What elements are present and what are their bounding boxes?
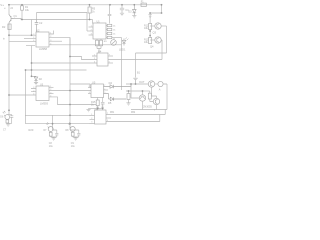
svg-text:10u: 10u [71,146,76,148]
wire bus y63 [32,62,98,64]
resistor R5 from rail [88,7,91,13]
svg-text:D3: D3 [128,10,132,13]
ground under D3 [132,16,136,18]
svg-text:2: 2 [50,36,51,38]
pin number specks [33,26,110,124]
wire U5 left stub1 [88,87,91,89]
svg-text:10k: 10k [144,41,149,44]
svg-text:5: 5 [107,120,108,122]
capacitor C2 above U2 [35,20,39,33]
junction dots [8,4,162,125]
svg-text:4: 4 [33,40,34,42]
wire bottom loop outer [26,114,95,116]
svg-text:D7: D7 [44,130,48,132]
svg-text:3: 3 [50,92,51,94]
resistor R8 right of U1 [106,33,107,35]
svg-text:D4: D4 [109,81,113,85]
wire U2 pin4 left [9,41,36,43]
wire Q3 base [150,25,155,27]
svg-text:3: 3 [33,87,34,89]
svg-text:4: 4 [33,94,34,96]
wire U4 right pin1 stub [108,55,113,57]
diode D2 under bus [32,76,39,84]
capacitor C4 top right rail [120,5,124,13]
crystal Y1 above U6 [96,106,104,110]
wire U5 left stub3 [88,93,91,95]
svg-text:D6: D6 [0,117,4,119]
svg-text:1k: 1k [91,104,94,107]
diode D5 right of U5 [104,94,127,101]
resistor R19 [6,118,8,120]
resistor R15 below U5 [97,98,99,101]
wire Q3 right [161,25,166,27]
wire U4 right out long [108,59,162,61]
ground cluster bottom-left [6,124,10,126]
svg-text:A: A [159,88,161,92]
svg-text:OUT: OUT [139,80,145,84]
resistor R21 [50,131,52,134]
junction dot [26,46,35,77]
svg-text:1k: 1k [92,10,95,13]
diode D4 right of U5 [104,84,132,88]
svg-text:U4: U4 [98,49,102,53]
svg-text:1: 1 [50,86,51,88]
resistor R22 [72,131,74,134]
svg-text:R20: R20 [29,128,34,132]
ground under R16 [126,103,130,105]
svg-text:5: 5 [104,92,105,94]
wire U2 pin2 left [9,34,36,36]
wire return bottom [131,109,167,111]
svg-text:6: 6 [104,89,105,91]
wire ground bus below U5 [89,108,104,110]
wire led cluster bottom [7,122,11,125]
svg-text:3: 3 [91,34,92,36]
transistor Q6 circle [139,95,145,101]
wire mid feedback [37,13,88,32]
IC U3 box [36,86,49,101]
wire y91 ext [143,90,150,92]
fuse F1 on rail [141,3,146,6]
capacitor C6 below U5 [101,98,105,109]
wire U1 pin3 stub [89,34,94,36]
wire base net [14,19,93,36]
svg-text:e: e [4,8,6,10]
svg-text:Q3: Q3 [153,30,157,34]
wire Q4 right [160,40,163,60]
capacitor C7 [10,116,13,124]
wire U2 pin5 right hook [49,31,54,35]
wire bus y70 [26,69,87,71]
svg-text:1k: 1k [113,30,116,32]
svg-text:C7: C7 [3,130,7,132]
wire base row y98 [131,84,139,98]
wire cluster1 bottom [51,136,57,138]
transistor Q3 circle [155,23,161,29]
svg-text:3: 3 [33,34,34,36]
IC U5 box [91,84,104,98]
IC U1 box [93,23,106,39]
wire right bus down [166,26,168,53]
transistor Q5 circle [148,81,154,87]
svg-text:3: 3 [91,121,92,123]
svg-text:U2: U2 [36,28,40,32]
wire drop to cluster2 [70,130,79,134]
wire x70 to U5 pin1 [70,84,91,88]
wire U4 pin left stubs [92,56,97,60]
ground cluster2 [74,138,78,140]
wire y91 row [126,90,143,92]
wire U3 pin left long [9,94,36,96]
wire feedback y53 [136,53,167,78]
resistor R11 below U1 [100,39,102,40]
wire left bus vertical [8,5,10,111]
svg-text:D5: D5 [108,101,112,105]
wire U4 right pin3 stub [108,62,113,64]
wire under R10 R11 [97,49,101,54]
svg-text:Q4: Q4 [150,45,154,49]
svg-text:2: 2 [89,86,90,88]
wire left col down [128,91,130,94]
IC U4 box [97,53,108,66]
svg-text:2: 2 [91,118,92,120]
svg-text:2: 2 [91,30,92,32]
wire Q6 top bottom [142,91,144,110]
transistor Q1 [9,15,14,23]
LED D7 [48,127,53,132]
wire U5 right stub2 [104,89,109,91]
wire U1 pin1 stub [89,26,94,28]
wire bottom loop inner [26,115,95,123]
zener D3 from rail [133,5,137,16]
wire U3 pin3 stub [49,93,54,95]
wire U2 pin7 stub [49,40,62,42]
wire U6 right out1 [106,110,165,115]
svg-text:LM358: LM358 [39,47,47,51]
wire bias tap [150,13,161,24]
resistor R6 right of U1 [106,25,107,27]
svg-text:10u: 10u [49,146,54,148]
capacitor C9 [77,133,80,137]
wire Q7 connections [150,87,157,109]
wire cluster2 bottom [73,136,79,138]
battery B1 [133,78,137,84]
resistor R17 [149,91,151,93]
svg-text:7: 7 [104,85,105,87]
resistor R2 on left bus [8,24,11,30]
svg-text:1: 1 [94,55,95,57]
svg-text:D8: D8 [66,130,70,132]
svg-text:2: 2 [33,37,34,39]
resistor R13 [149,38,152,44]
svg-text:1k: 1k [113,34,116,36]
op-amp U2 box [36,32,49,47]
transistor Q7 circle [153,98,159,104]
svg-text:C9: C9 [71,143,75,145]
svg-text:FB2: FB2 [131,112,136,114]
resistor R1 from rail [21,6,24,10]
wire U6 right stub [106,117,111,119]
wire U3 right pin1 stub [49,86,54,88]
svg-text:1: 1 [91,114,92,116]
svg-text:3: 3 [50,40,51,42]
wire Q4 base [150,39,155,41]
wire U2 pin3 stub [24,37,36,39]
wire U1 pin2 left [87,30,93,32]
svg-text:Q1: Q1 [14,15,18,18]
wire top supply rail [8,4,162,6]
svg-text:e: e [154,110,156,112]
svg-text:1: 1 [91,26,92,28]
wire output row y84 [126,83,148,85]
resistor R7 right of U1 [106,29,107,31]
wire drop to cluster1 [53,115,57,133]
wire Q5 to M2 [155,83,158,85]
svg-text:R9: R9 [104,41,108,43]
wire led cluster top [7,110,11,116]
LED D6 bottom-left [5,115,10,120]
wire center bus x70 [69,38,71,130]
svg-text:D2: D2 [39,78,43,81]
svg-text:4: 4 [50,96,51,98]
svg-text:in: in [3,39,6,41]
svg-text:2: 2 [50,89,51,91]
resistor R10 below U1 [96,39,98,40]
wire U2 pin6 right route to U4 [49,38,92,60]
wire U6 left pin3 [90,123,95,125]
wire U6 left pin1 [90,114,95,116]
svg-text:24: 24 [10,8,13,10]
LED D1 [122,39,125,46]
svg-text:V+: V+ [0,3,4,7]
wire U3 pin4 route [49,97,96,105]
wire U6 left pin2 [90,119,95,121]
svg-text:2N3055: 2N3055 [143,105,152,108]
ground cluster1 [52,138,56,140]
wire R9 to right bus [112,37,122,39]
LED D8 [70,127,75,132]
meter M1 circle [111,40,117,46]
wire U6 right out2 [106,115,160,122]
svg-text:C8: C8 [49,143,53,145]
wire U3 pin stubs left [31,89,36,92]
capacitor C8 [55,133,58,137]
svg-text:LM393: LM393 [40,101,48,105]
svg-text:U5: U5 [92,80,96,84]
svg-text:5: 5 [109,62,110,64]
resistor R12 [149,24,152,30]
svg-text:2: 2 [33,90,34,92]
ground below U5 [86,109,90,112]
wire rail end down [161,5,163,13]
svg-text:2: 2 [94,58,95,60]
resistor R9 right of U1 [106,37,107,39]
svg-text:4: 4 [50,43,51,45]
svg-text:FB1: FB1 [110,112,115,114]
svg-text:LED1: LED1 [119,48,126,52]
meter M2 circle [158,81,163,86]
wire left loop down [25,70,27,116]
resistor R16 [127,94,130,100]
svg-text:1k: 1k [113,26,116,28]
ground under C4 [120,13,124,15]
wire U3 out to U5 [49,90,91,92]
IC U6 box [95,110,107,124]
svg-text:10k: 10k [25,9,30,12]
svg-text:B1: B1 [137,72,141,75]
transistor Q4 circle [155,37,161,43]
svg-text:C2: C2 [39,21,43,25]
wire output right corner [163,84,167,110]
svg-text:10k: 10k [144,27,149,30]
capacitor C5 [148,15,152,18]
svg-text:3: 3 [94,62,95,64]
capacitor C3 at rail over U1 [108,5,112,24]
svg-text:7: 7 [109,55,110,57]
wire U2 pin8 long right [49,38,122,91]
svg-text:R2: R2 [2,25,6,29]
svg-text:1: 1 [50,33,51,35]
svg-text:7: 7 [107,113,108,115]
svg-text:3: 3 [89,92,90,94]
